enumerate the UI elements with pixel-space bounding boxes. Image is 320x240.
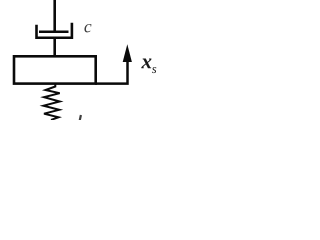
damper cylinder cup <box>37 23 72 38</box>
label c (damping coefficient) <box>84 24 91 32</box>
damper piston plate <box>39 31 69 34</box>
label k (spring constant, only ascender visible at bottom edge) <box>80 115 81 121</box>
arrow head of x_s displacement arrow <box>123 44 132 62</box>
wire (mass to displacement arrow) <box>95 61 128 84</box>
mass block M <box>14 56 96 83</box>
spring K <box>44 84 60 120</box>
label x_s (displacement) <box>141 59 156 74</box>
wire (damper to mass) <box>53 38 56 56</box>
wire (top rod into damper) <box>53 0 56 32</box>
